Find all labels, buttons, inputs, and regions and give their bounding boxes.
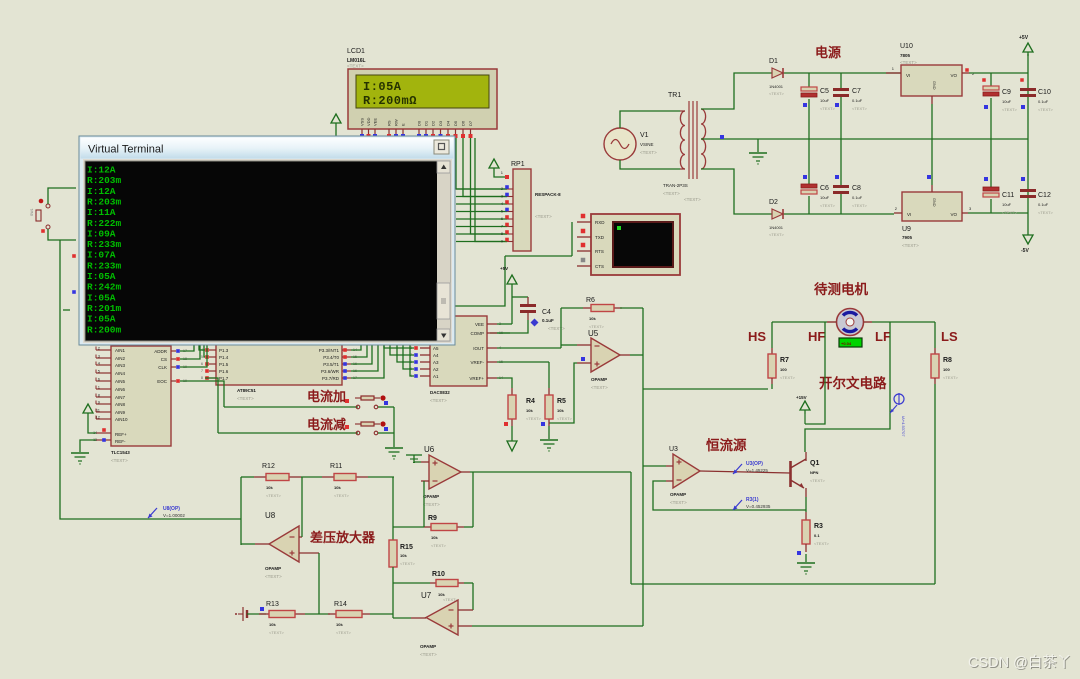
svg-text:5: 5 bbox=[501, 210, 503, 214]
svg-text:I:12A: I:12A bbox=[87, 186, 116, 197]
svg-text:IOUT: IOUT bbox=[473, 346, 484, 351]
svg-text:5: 5 bbox=[201, 355, 203, 359]
svg-text:+5V: +5V bbox=[500, 266, 508, 271]
svg-text:6: 6 bbox=[201, 362, 203, 366]
svg-text:U6: U6 bbox=[424, 445, 435, 454]
svg-text:<TEXT>: <TEXT> bbox=[640, 150, 657, 155]
svg-text:AIN8: AIN8 bbox=[115, 402, 126, 407]
svg-text:VEE: VEE bbox=[373, 118, 378, 126]
svg-text:V1: V1 bbox=[640, 132, 649, 139]
svg-text:待测电机: 待测电机 bbox=[814, 281, 868, 297]
svg-text:<TEXT>: <TEXT> bbox=[430, 398, 447, 403]
svg-text:7: 7 bbox=[501, 225, 503, 229]
svg-text:R13: R13 bbox=[266, 601, 279, 608]
svg-text:A1: A1 bbox=[433, 374, 439, 379]
svg-text:<TEXT>: <TEXT> bbox=[557, 416, 573, 421]
svg-text:U8(OP): U8(OP) bbox=[163, 506, 180, 512]
svg-text:OPAMP: OPAMP bbox=[670, 492, 686, 497]
svg-text:P1.6: P1.6 bbox=[219, 369, 229, 374]
svg-text:10k: 10k bbox=[336, 622, 343, 627]
svg-text:VSINE: VSINE bbox=[640, 142, 654, 147]
svg-text:1N4001: 1N4001 bbox=[769, 84, 784, 89]
svg-text:D5: D5 bbox=[453, 120, 458, 126]
svg-text:V=1.00002: V=1.00002 bbox=[163, 513, 185, 518]
svg-text:IA+4.53707: IA+4.53707 bbox=[901, 416, 906, 437]
svg-text:R14: R14 bbox=[334, 601, 347, 608]
svg-text:<TEXT>: <TEXT> bbox=[943, 375, 959, 380]
svg-text:4: 4 bbox=[501, 202, 503, 206]
svg-text:U7: U7 bbox=[421, 591, 432, 600]
svg-text:COMP: COMP bbox=[471, 331, 485, 336]
svg-text:<TEXT>: <TEXT> bbox=[526, 416, 542, 421]
svg-text:D1: D1 bbox=[769, 58, 778, 65]
svg-text:I:09A: I:09A bbox=[87, 228, 116, 239]
svg-text:10k: 10k bbox=[334, 485, 341, 490]
svg-text:P3.6/WR: P3.6/WR bbox=[321, 369, 340, 374]
svg-text:VO: VO bbox=[950, 73, 957, 78]
svg-text:I:11A: I:11A bbox=[87, 207, 116, 218]
svg-text:<TEXT>: <TEXT> bbox=[535, 214, 552, 219]
svg-text:2: 2 bbox=[501, 187, 503, 191]
svg-text:Virtual Terminal: Virtual Terminal bbox=[88, 144, 163, 156]
svg-text:<TEXT>: <TEXT> bbox=[400, 561, 416, 566]
svg-text:R12: R12 bbox=[262, 463, 275, 470]
svg-text:LF: LF bbox=[875, 329, 891, 344]
svg-text:8: 8 bbox=[201, 376, 203, 380]
svg-text:0.1: 0.1 bbox=[814, 533, 820, 538]
svg-text:10k: 10k bbox=[400, 553, 407, 558]
svg-text:GND: GND bbox=[932, 198, 936, 207]
svg-text:CTS: CTS bbox=[595, 264, 604, 269]
svg-text:6: 6 bbox=[501, 217, 503, 221]
svg-text:+15V: +15V bbox=[796, 395, 807, 400]
svg-text:10k: 10k bbox=[269, 622, 276, 627]
svg-text:U8: U8 bbox=[265, 511, 276, 520]
svg-text:+0.04: +0.04 bbox=[841, 341, 852, 346]
svg-text:<TEXT>: <TEXT> bbox=[420, 652, 437, 657]
svg-text:OPAMP: OPAMP bbox=[591, 377, 607, 382]
svg-text:<TEXT>: <TEXT> bbox=[1002, 210, 1018, 215]
svg-text:RP1: RP1 bbox=[511, 161, 525, 168]
svg-text:AIN10: AIN10 bbox=[115, 417, 128, 422]
svg-text:C5: C5 bbox=[820, 88, 829, 95]
svg-text:<TEXT>: <TEXT> bbox=[1002, 107, 1018, 112]
svg-text:<TEXT>: <TEXT> bbox=[902, 243, 919, 248]
svg-text:C4: C4 bbox=[542, 309, 551, 316]
svg-text:U5: U5 bbox=[588, 329, 599, 338]
svg-text:<TEXT>: <TEXT> bbox=[852, 106, 868, 111]
svg-text:CLK: CLK bbox=[158, 365, 167, 370]
svg-text:3: 3 bbox=[501, 195, 503, 199]
svg-text:D4: D4 bbox=[446, 120, 451, 126]
svg-text:D1: D1 bbox=[424, 120, 429, 126]
svg-text:R4: R4 bbox=[526, 398, 535, 405]
svg-text:CSDN @白茶丫: CSDN @白茶丫 bbox=[968, 654, 1071, 671]
svg-text:TXD: TXD bbox=[595, 235, 605, 240]
svg-text:I:05A: I:05A bbox=[363, 80, 402, 94]
svg-text:A3: A3 bbox=[433, 360, 439, 365]
svg-text:AIN7: AIN7 bbox=[115, 395, 126, 400]
svg-text:<TEXT>: <TEXT> bbox=[269, 630, 285, 635]
svg-text:P3.3/INT1: P3.3/INT1 bbox=[319, 348, 340, 353]
svg-text:C11: C11 bbox=[1002, 192, 1014, 199]
svg-text:+5V: +5V bbox=[1019, 35, 1029, 41]
svg-text:U10: U10 bbox=[900, 43, 913, 50]
svg-text:R9: R9 bbox=[428, 515, 437, 522]
svg-text:R:201m: R:201m bbox=[87, 303, 122, 314]
svg-text:100: 100 bbox=[780, 367, 787, 372]
svg-text:C9: C9 bbox=[1002, 89, 1011, 96]
svg-text:R8: R8 bbox=[943, 357, 952, 364]
svg-text:VREF+: VREF+ bbox=[469, 376, 484, 381]
svg-text:8: 8 bbox=[501, 232, 503, 236]
svg-text:DAC0832: DAC0832 bbox=[430, 390, 450, 395]
svg-text:开尔文电路: 开尔文电路 bbox=[819, 375, 887, 391]
svg-text:AIN6: AIN6 bbox=[115, 387, 126, 392]
svg-text:AIN2: AIN2 bbox=[115, 356, 126, 361]
svg-text:VI: VI bbox=[907, 212, 911, 217]
svg-text:<TEXT>: <TEXT> bbox=[810, 478, 826, 483]
svg-text:<TEXT>: <TEXT> bbox=[663, 191, 680, 196]
svg-text:<TEXT>: <TEXT> bbox=[670, 500, 687, 505]
svg-text:D6: D6 bbox=[461, 120, 466, 126]
svg-text:V=0.452935: V=0.452935 bbox=[746, 504, 771, 509]
svg-text:OPAMP: OPAMP bbox=[423, 494, 439, 499]
svg-text:R15: R15 bbox=[400, 544, 413, 551]
svg-text:<TEXT>: <TEXT> bbox=[769, 91, 785, 96]
svg-text:AIN4: AIN4 bbox=[115, 371, 126, 376]
svg-text:AT89C51: AT89C51 bbox=[237, 388, 256, 393]
svg-text:9: 9 bbox=[501, 240, 503, 244]
svg-text:A5: A5 bbox=[433, 346, 439, 351]
svg-text:LS: LS bbox=[941, 329, 958, 344]
svg-text:R10: R10 bbox=[432, 571, 445, 578]
svg-text:VEE: VEE bbox=[475, 322, 484, 327]
svg-text:R3: R3 bbox=[814, 523, 823, 530]
svg-text:<TEXT>: <TEXT> bbox=[820, 203, 836, 208]
svg-text:HS: HS bbox=[748, 329, 766, 344]
svg-text:VO: VO bbox=[950, 212, 957, 217]
svg-text:R:233m: R:233m bbox=[87, 239, 122, 250]
svg-text:<TEXT>: <TEXT> bbox=[684, 197, 701, 202]
svg-text:<TEXT>: <TEXT> bbox=[780, 375, 796, 380]
svg-text:C8: C8 bbox=[852, 185, 861, 192]
svg-text:7805: 7805 bbox=[900, 53, 911, 58]
svg-text:0.1uF: 0.1uF bbox=[1038, 99, 1049, 104]
svg-text:HF: HF bbox=[808, 329, 825, 344]
svg-text:电源: 电源 bbox=[815, 45, 841, 60]
svg-text:C12: C12 bbox=[1038, 192, 1051, 199]
svg-text:P3.5/T1: P3.5/T1 bbox=[323, 362, 339, 367]
svg-text:I:05A: I:05A bbox=[87, 292, 116, 303]
svg-text:U3(OP): U3(OP) bbox=[746, 461, 763, 467]
svg-text:C7: C7 bbox=[852, 88, 861, 95]
svg-text:1N4001: 1N4001 bbox=[769, 225, 784, 230]
svg-text:0.1uF: 0.1uF bbox=[852, 98, 863, 103]
svg-text:RESPACK-8: RESPACK-8 bbox=[535, 192, 561, 197]
svg-text:P1.5: P1.5 bbox=[219, 362, 229, 367]
svg-text:R3(1): R3(1) bbox=[746, 497, 759, 503]
svg-text:R:233m: R:233m bbox=[87, 260, 122, 271]
svg-text:TR1: TR1 bbox=[668, 92, 681, 99]
svg-text:RS: RS bbox=[387, 120, 392, 126]
svg-text:<TEXT>: <TEXT> bbox=[423, 502, 440, 507]
svg-text:U9: U9 bbox=[902, 226, 911, 233]
svg-text:REF-: REF- bbox=[115, 439, 126, 444]
svg-text:AIN5: AIN5 bbox=[115, 379, 126, 384]
svg-text:<TEXT>: <TEXT> bbox=[266, 493, 282, 498]
svg-text:I:05A: I:05A bbox=[87, 314, 116, 325]
svg-text:C10: C10 bbox=[1038, 89, 1051, 96]
svg-text:R11: R11 bbox=[330, 463, 342, 470]
svg-text:VREF-: VREF- bbox=[471, 360, 485, 365]
svg-text:D3: D3 bbox=[438, 120, 443, 126]
svg-text:<TEXT>: <TEXT> bbox=[347, 64, 364, 69]
svg-text:P1.3: P1.3 bbox=[219, 348, 229, 353]
svg-text:AIN3: AIN3 bbox=[115, 363, 126, 368]
svg-text:<TEXT>: <TEXT> bbox=[814, 541, 830, 546]
svg-text:P3.7/RD: P3.7/RD bbox=[322, 376, 340, 381]
svg-text:OPAMP: OPAMP bbox=[420, 644, 436, 649]
svg-text:<TEXT>: <TEXT> bbox=[111, 458, 128, 463]
svg-text:10uF: 10uF bbox=[820, 195, 830, 200]
svg-text:R7: R7 bbox=[780, 357, 789, 364]
svg-text:10k: 10k bbox=[526, 408, 533, 413]
svg-text:VSS: VSS bbox=[360, 118, 365, 126]
svg-text:10k: 10k bbox=[431, 535, 438, 540]
svg-text:10k: 10k bbox=[557, 408, 564, 413]
svg-text:<TEXT>: <TEXT> bbox=[591, 385, 608, 390]
svg-text:A4: A4 bbox=[433, 353, 439, 358]
svg-text:R6: R6 bbox=[586, 297, 595, 304]
svg-text:R5: R5 bbox=[557, 398, 566, 405]
svg-text:10uF: 10uF bbox=[1002, 202, 1012, 207]
svg-text:Q1: Q1 bbox=[810, 460, 819, 467]
svg-text:U3: U3 bbox=[669, 446, 678, 453]
svg-text:P3.4/T0: P3.4/T0 bbox=[323, 355, 339, 360]
svg-text:P1.4: P1.4 bbox=[219, 355, 229, 360]
svg-text:EOC: EOC bbox=[157, 379, 168, 384]
svg-text:R:222m: R:222m bbox=[87, 218, 122, 229]
svg-text:D2: D2 bbox=[769, 199, 778, 206]
svg-text:CS: CS bbox=[161, 357, 167, 362]
svg-text:10uF: 10uF bbox=[820, 98, 830, 103]
svg-text:<TEXT>: <TEXT> bbox=[265, 574, 282, 579]
svg-text:E: E bbox=[401, 123, 406, 126]
svg-text:RTS: RTS bbox=[595, 249, 604, 254]
svg-text:SW1: SW1 bbox=[30, 208, 34, 216]
svg-text:ADDR: ADDR bbox=[154, 349, 168, 354]
svg-text:RXD: RXD bbox=[595, 220, 605, 225]
svg-text:差压放大器: 差压放大器 bbox=[310, 530, 376, 545]
svg-text:AIN9: AIN9 bbox=[115, 410, 126, 415]
svg-text:I:12A: I:12A bbox=[87, 165, 116, 176]
svg-text:10k: 10k bbox=[589, 316, 596, 321]
svg-text:V=1.45225: V=1.45225 bbox=[746, 468, 768, 473]
svg-text:VDD: VDD bbox=[366, 117, 371, 126]
svg-text:TLC1543: TLC1543 bbox=[111, 450, 130, 455]
svg-text:R:203m: R:203m bbox=[87, 196, 122, 207]
svg-text:<TEXT>: <TEXT> bbox=[820, 106, 836, 111]
svg-text:<TEXT>: <TEXT> bbox=[769, 232, 785, 237]
svg-text:D0: D0 bbox=[417, 120, 422, 126]
svg-text:NPN: NPN bbox=[810, 470, 819, 475]
svg-text:A2: A2 bbox=[433, 367, 439, 372]
svg-text:0.1uF: 0.1uF bbox=[542, 318, 554, 323]
svg-text:GND: GND bbox=[932, 81, 936, 90]
svg-text:C6: C6 bbox=[820, 185, 829, 192]
svg-text:电流加: 电流加 bbox=[307, 389, 346, 404]
svg-text:<TEXT>: <TEXT> bbox=[900, 60, 917, 65]
svg-text:<TEXT>: <TEXT> bbox=[852, 203, 868, 208]
svg-text:R:203m: R:203m bbox=[87, 175, 122, 186]
svg-text:R:200m: R:200m bbox=[87, 324, 122, 335]
svg-text:REF+: REF+ bbox=[115, 432, 127, 437]
svg-text:<TEXT>: <TEXT> bbox=[548, 326, 565, 331]
svg-text:<TEXT>: <TEXT> bbox=[334, 493, 350, 498]
svg-text:I:07A: I:07A bbox=[87, 250, 116, 261]
svg-text:D2: D2 bbox=[431, 120, 436, 126]
svg-text:LCD1: LCD1 bbox=[347, 48, 365, 55]
svg-text:<TEXT>: <TEXT> bbox=[1038, 107, 1054, 112]
svg-text:D7: D7 bbox=[468, 120, 473, 126]
svg-text:-5V: -5V bbox=[1021, 248, 1029, 254]
svg-text:电流减: 电流减 bbox=[307, 417, 346, 432]
svg-text:10uF: 10uF bbox=[1002, 99, 1012, 104]
svg-text:10k: 10k bbox=[266, 485, 273, 490]
svg-text:R:200mΩ: R:200mΩ bbox=[363, 94, 417, 108]
svg-text:<TEXT>: <TEXT> bbox=[431, 543, 447, 548]
svg-text:<TEXT>: <TEXT> bbox=[336, 630, 352, 635]
svg-text:RW: RW bbox=[394, 119, 399, 126]
svg-text:<TEXT>: <TEXT> bbox=[1038, 210, 1054, 215]
svg-text:OPAMP: OPAMP bbox=[265, 566, 281, 571]
svg-text:100: 100 bbox=[943, 367, 950, 372]
svg-text:TRAN-2P3S: TRAN-2P3S bbox=[663, 183, 688, 188]
svg-text:恒流源: 恒流源 bbox=[706, 437, 747, 453]
svg-text:7: 7 bbox=[201, 369, 203, 373]
svg-text:0.1uF: 0.1uF bbox=[1038, 202, 1049, 207]
svg-text:R:242m: R:242m bbox=[87, 282, 122, 293]
svg-text:0.1uF: 0.1uF bbox=[852, 195, 863, 200]
svg-text:I:05A: I:05A bbox=[87, 271, 116, 282]
svg-text:<TEXT>: <TEXT> bbox=[237, 396, 254, 401]
svg-text:P1.7: P1.7 bbox=[219, 376, 229, 381]
svg-text:7905: 7905 bbox=[902, 235, 913, 240]
svg-text:AIN1: AIN1 bbox=[115, 348, 126, 353]
svg-text:VI: VI bbox=[906, 73, 910, 78]
